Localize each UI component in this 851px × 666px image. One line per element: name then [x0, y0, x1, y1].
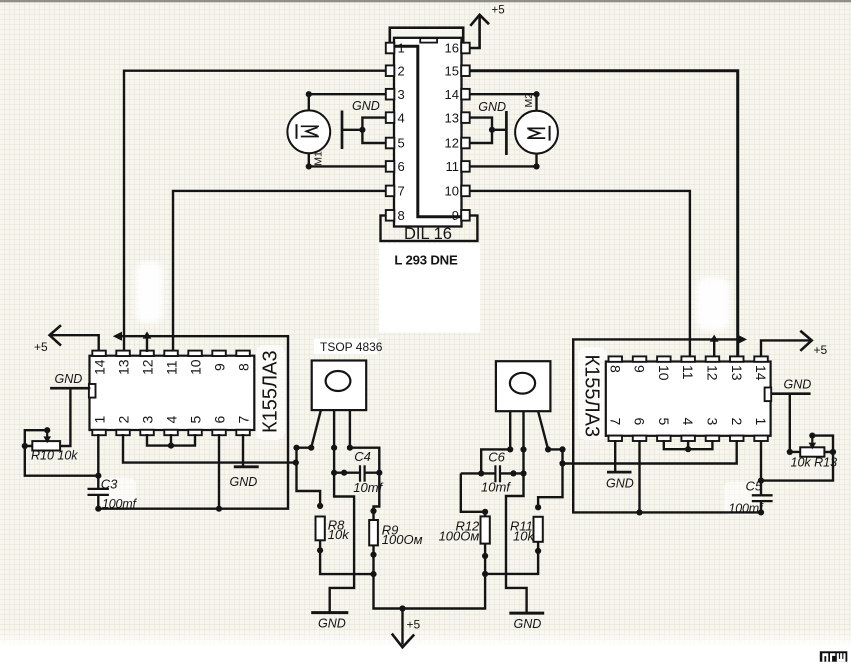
- svg-text:100Ом: 100Ом: [439, 528, 480, 543]
- svg-text:GND: GND: [514, 617, 542, 631]
- U2 top pins 14-8: [92, 351, 250, 356]
- svg-text:GND: GND: [352, 99, 380, 113]
- svg-text:C3: C3: [101, 476, 118, 491]
- resistor R12: [481, 516, 490, 577]
- svg-text:16: 16: [445, 41, 459, 56]
- wire U2 pins3,4,5 tied: [147, 434, 195, 449]
- svg-text:GND: GND: [230, 475, 258, 489]
- svg-text:4: 4: [398, 110, 405, 125]
- ic U3 K155LA3 right: [606, 362, 771, 436]
- wire U1 pins13,12 to gnd junction: [470, 118, 506, 143]
- svg-text:+5: +5: [407, 618, 421, 632]
- wire C6 to R12: [461, 473, 488, 516]
- svg-text:2: 2: [116, 416, 132, 424]
- svg-text:GND: GND: [55, 372, 83, 386]
- power +5 arrow left: [34, 325, 61, 354]
- svg-text:13: 13: [116, 359, 132, 375]
- wire U3 pins3,4,5 tied: [664, 440, 713, 452]
- svg-text:GND: GND: [784, 378, 812, 392]
- svg-text:13: 13: [445, 110, 459, 125]
- wire U1 pin16 to +5: [470, 17, 480, 49]
- svg-text:10mf: 10mf: [481, 479, 511, 494]
- svg-text:11: 11: [680, 365, 696, 380]
- svg-text:9: 9: [452, 208, 459, 223]
- wire U1 pin11 to motor M2 bottom: [470, 153, 540, 169]
- svg-text:R10 10k: R10 10k: [31, 449, 78, 463]
- svg-text:100mf: 100mf: [729, 502, 764, 516]
- svg-text:M2: M2: [523, 93, 535, 108]
- wire C4 to R9: [370, 473, 379, 520]
- svg-text:14: 14: [92, 359, 108, 375]
- svg-text:100mf: 100mf: [102, 497, 137, 511]
- svg-text:1: 1: [398, 41, 405, 56]
- svg-text:M1: M1: [313, 151, 325, 166]
- wire U1 pin3 to motor M1 top: [306, 91, 386, 110]
- wire U3 pin2 to node B: [559, 440, 736, 467]
- svg-text:12: 12: [445, 136, 459, 151]
- svg-text:7: 7: [236, 416, 252, 424]
- wire U4 left leg to node A: [293, 410, 321, 451]
- wire +5 to U3 pin14: [761, 340, 812, 356]
- capacitor C5: [752, 495, 773, 515]
- U3 pin numbers top: [607, 365, 769, 381]
- U1 pin numbers right: [445, 41, 459, 223]
- svg-text:5: 5: [188, 416, 204, 424]
- wire node A to R8: [297, 448, 324, 509]
- U1 pin numbers left: [398, 41, 405, 223]
- svg-text:10k: 10k: [328, 527, 350, 542]
- wire branch to U3 pin12: [710, 335, 719, 357]
- wire R13 wiper and right lead to U3 pin1: [761, 433, 836, 481]
- wire rail to U2 area (net V+): [98, 332, 288, 509]
- svg-text:К155ЛА3: К155ЛА3: [581, 355, 603, 438]
- wire ground to R13 left lead: [787, 395, 801, 455]
- wire U4 middle leg to ground: [330, 410, 354, 611]
- wire U3 pin1 to C5: [758, 440, 764, 495]
- wire U2 pin1 to C3: [97, 434, 99, 489]
- svg-text:5: 5: [398, 136, 405, 151]
- wire U5 right leg to node B: [538, 411, 566, 452]
- wire U2 pin2 to node A: [123, 434, 299, 466]
- svg-text:100Ом: 100Ом: [382, 532, 423, 547]
- svg-text:14: 14: [753, 365, 769, 381]
- svg-text:8: 8: [607, 365, 623, 373]
- svg-text:GND: GND: [318, 616, 346, 630]
- svg-text:DIL 16: DIL 16: [404, 225, 452, 243]
- wire U1 pin2 to U2 pin13: [124, 71, 386, 352]
- svg-text:12: 12: [705, 365, 721, 381]
- svg-text:C6: C6: [488, 450, 505, 465]
- capacitor C3: [88, 489, 109, 512]
- svg-text:+5: +5: [814, 343, 828, 357]
- resistor R8: [316, 517, 325, 554]
- wire U1 pin6 to motor M1 bottom: [306, 153, 386, 169]
- svg-text:3: 3: [398, 87, 405, 102]
- svg-text:6: 6: [632, 418, 648, 426]
- wire U3 pin6 to bottom rail: [636, 440, 642, 516]
- ground U2 pin7: [230, 467, 259, 489]
- potentiometer R10: [32, 430, 60, 450]
- label R9 100Om: [382, 523, 423, 547]
- U3 pin numbers bottom: [607, 418, 769, 426]
- wire R11 bottom to +5 node: [485, 542, 538, 574]
- motor M1: [287, 110, 330, 153]
- ground bar left motor: [342, 99, 380, 149]
- wire U1 pin7 to U2 pin11: [173, 191, 386, 352]
- svg-text:C4: C4: [354, 449, 371, 464]
- svg-text:GND: GND: [606, 476, 634, 490]
- svg-text:6: 6: [398, 159, 405, 174]
- wire R10 right lead to ground: [60, 389, 70, 446]
- capacitor C4: [334, 465, 379, 481]
- wire R8 bottom to +5 node: [320, 540, 377, 577]
- power +5 arrow bottom: [392, 605, 421, 647]
- ground bar right motor: [478, 100, 506, 155]
- U1 right pins 16-9: [461, 43, 470, 221]
- svg-text:2: 2: [729, 418, 745, 426]
- svg-text:1: 1: [92, 416, 108, 424]
- svg-text:14: 14: [445, 87, 459, 102]
- svg-text:13: 13: [729, 365, 745, 381]
- svg-text:TSOP 4836: TSOP 4836: [320, 340, 383, 354]
- wire rail to U3 area (net V+ right): [573, 335, 761, 513]
- svg-text:7: 7: [607, 418, 623, 426]
- wire R10 wiper and left lead to U2 pin1: [22, 427, 102, 479]
- svg-text:3: 3: [705, 418, 721, 426]
- svg-text:К155ЛА3: К155ЛА3: [260, 350, 282, 433]
- wire U5 middle leg to ground: [506, 411, 527, 612]
- svg-text:5: 5: [656, 418, 672, 426]
- svg-text:11: 11: [446, 159, 460, 174]
- wire node B to R11: [535, 449, 563, 510]
- svg-text:9: 9: [632, 365, 648, 373]
- wire R9 bottom to +5 rail: [374, 544, 486, 609]
- svg-text:10k R13: 10k R13: [791, 455, 838, 469]
- svg-text:15: 15: [445, 63, 459, 78]
- wire U4 right leg to C4: [347, 410, 383, 476]
- svg-text:8: 8: [398, 208, 405, 223]
- U2 bottom pins 1-7: [92, 430, 250, 435]
- ground U3 pin7: [606, 472, 634, 490]
- motor M2: [515, 111, 558, 154]
- potentiometer R13: [800, 436, 824, 457]
- svg-text:8: 8: [236, 363, 252, 371]
- label R11 10k: [510, 518, 535, 543]
- wire U1 pin14 to motor M2 top: [470, 91, 540, 110]
- bottom scan white band: [0, 630, 851, 647]
- svg-text:10: 10: [188, 359, 204, 375]
- svg-text:GND: GND: [478, 100, 506, 114]
- svg-text:9: 9: [212, 363, 228, 371]
- white scan patches: [379, 244, 480, 333]
- U1 left pins 1-8: [386, 43, 395, 221]
- wire U5 left leg to C6: [478, 411, 513, 476]
- ic U1 L293DNE DIP-16: [381, 28, 478, 241]
- svg-text:12: 12: [140, 359, 156, 375]
- svg-text:3: 3: [140, 416, 156, 424]
- ground above R10: [50, 372, 90, 388]
- wire U1 pin10 to U3 pin11: [470, 191, 690, 357]
- svg-text:10: 10: [445, 184, 459, 199]
- svg-text:11: 11: [164, 360, 180, 375]
- svg-text:10: 10: [656, 365, 672, 381]
- svg-text:4: 4: [680, 418, 696, 426]
- capacitor C6: [461, 465, 524, 482]
- svg-text:+5: +5: [492, 5, 505, 17]
- ir receiver U4 TSOP4836 left: [312, 361, 367, 411]
- svg-text:L 293 DNE: L 293 DNE: [394, 252, 458, 267]
- wire U2 pin7 to ground: [242, 434, 244, 466]
- U3 top pins 8-14: [609, 356, 768, 361]
- U2 pin numbers top: [92, 359, 252, 375]
- svg-text:6: 6: [212, 416, 228, 424]
- ground above R13: [771, 378, 812, 394]
- ground U5: [509, 613, 544, 631]
- label R12 100Om: [439, 518, 480, 543]
- power +5 arrow right: [800, 331, 827, 357]
- ic U2 K155LA3 left: [89, 356, 254, 430]
- resistor R11: [534, 517, 543, 554]
- wire U3 pin7 to ground: [614, 440, 616, 472]
- ir receiver U5 TSOP4836 right: [496, 361, 551, 411]
- svg-text:1: 1: [753, 418, 769, 426]
- svg-text:7: 7: [398, 184, 405, 199]
- label R8 10k: [328, 517, 350, 542]
- U3 bottom pins 7-1: [609, 436, 768, 441]
- svg-text:C5: C5: [746, 479, 763, 494]
- svg-text:2: 2: [398, 63, 405, 78]
- svg-text:10k: 10k: [513, 528, 535, 543]
- wire branch to U2 pin12: [143, 331, 152, 352]
- power +5 arrow top: [470, 5, 504, 26]
- svg-text:+5: +5: [34, 340, 48, 354]
- U2 pin numbers bottom: [92, 416, 252, 424]
- watermark nrw: [820, 651, 848, 661]
- scan top edge line: [0, 0, 851, 2]
- wire +5 to U2 pin14: [50, 335, 99, 351]
- resistor R9: [369, 520, 378, 558]
- wire U2 pin6 to bottom rail: [216, 434, 222, 512]
- wire U1 pins4,5 to gnd junction: [343, 118, 386, 143]
- ground U4: [311, 613, 348, 631]
- svg-text:4: 4: [164, 416, 180, 424]
- wire U1 pin15 to U3 pin13: [470, 71, 738, 357]
